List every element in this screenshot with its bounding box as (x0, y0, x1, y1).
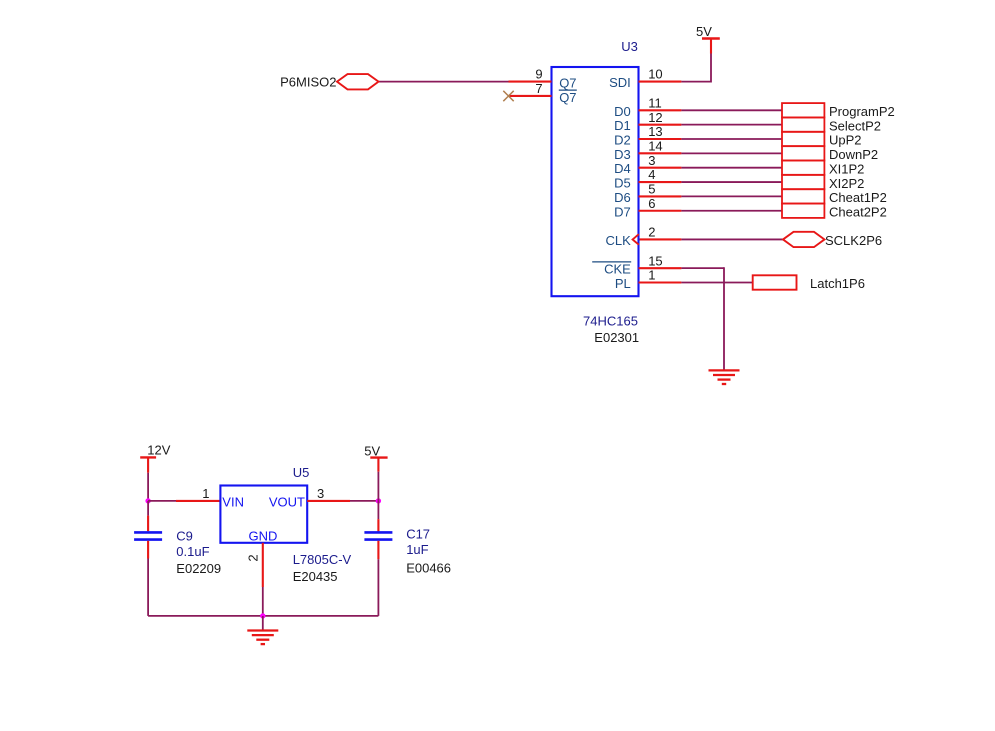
port cell for Cheat1P2 (782, 189, 824, 203)
port Latch1P6 rectangle (753, 275, 797, 289)
svg-text:15: 15 (648, 253, 662, 268)
pin 15 stub (CKE) (639, 267, 682, 269)
wire C9 to bottom rail (147, 559, 149, 616)
svg-text:E20435: E20435 (293, 569, 338, 584)
pin 1 stub (VIN) (176, 500, 220, 502)
svg-text:PL: PL (615, 276, 631, 291)
port cell for Cheat2P2 (782, 204, 824, 218)
wire SDI horizontal (681, 81, 711, 83)
svg-text:GND: GND (249, 528, 278, 543)
wire C17 to bottom rail (377, 559, 379, 616)
junction dot at VOUT/5V/C17 node (376, 498, 381, 503)
svg-text:DownP2: DownP2 (829, 147, 878, 162)
wire D5 to port (681, 181, 782, 183)
pin 13 stub (D2) (639, 138, 682, 140)
svg-text:VOUT: VOUT (269, 494, 305, 509)
pin 1 stub (PL) (639, 281, 682, 283)
svg-text:1: 1 (202, 486, 209, 501)
pin 9 stub (509, 81, 552, 83)
svg-text:XI1P2: XI1P2 (829, 161, 864, 176)
wire D4 to port (681, 167, 782, 169)
wire D3 to port (681, 152, 782, 154)
wire node down to C17 (377, 501, 379, 519)
port cell for UpP2 (782, 132, 824, 146)
svg-text:SDI: SDI (609, 75, 631, 90)
wire CKE down to ground (723, 267, 725, 370)
pin 12 stub (D1) (639, 124, 682, 126)
port cell for XI1P2 (782, 161, 824, 175)
pin 2 clock arrow (633, 234, 639, 245)
power symbol 12V bar (140, 456, 156, 458)
ground symbol (U3 section) (709, 370, 740, 384)
svg-text:U5: U5 (293, 465, 310, 480)
svg-text:1uF: 1uF (406, 542, 428, 557)
svg-text:5V: 5V (364, 443, 380, 458)
svg-text:6: 6 (648, 196, 655, 211)
bottom ground rail (148, 615, 378, 617)
capacitor C17 top lead (377, 519, 379, 531)
U3 CKE overline (592, 261, 631, 263)
svg-text:74HC165: 74HC165 (583, 314, 638, 329)
port cell for SelectP2 (782, 117, 824, 131)
svg-text:C17: C17 (406, 527, 430, 542)
svg-text:CKE: CKE (604, 262, 631, 277)
wire CKE horizontal (681, 267, 724, 269)
5V power pin stub (top) (710, 39, 712, 54)
svg-text:12V: 12V (147, 443, 170, 458)
wire P6MISO2 to pin 9 (379, 81, 509, 83)
svg-text:VIN: VIN (222, 494, 244, 509)
svg-text:D3: D3 (614, 147, 631, 162)
svg-text:E00466: E00466 (406, 560, 451, 575)
svg-text:L7805C-V: L7805C-V (293, 552, 352, 567)
5V power pin stub (bottom) (377, 458, 379, 472)
svg-text:SelectP2: SelectP2 (829, 118, 881, 133)
svg-text:4: 4 (648, 167, 655, 182)
pin 2 stub (CLK) (640, 238, 682, 240)
svg-text:14: 14 (648, 138, 662, 153)
pin 11 stub (D0) (639, 109, 682, 111)
junction dot at GND rail (260, 613, 265, 618)
svg-text:3: 3 (648, 153, 655, 168)
pin 2 stub (GND) (262, 543, 264, 587)
svg-text:Cheat2P2: Cheat2P2 (829, 204, 887, 219)
U3 /Q7 overline (559, 89, 577, 91)
pin 3 stub (VOUT) (307, 500, 350, 502)
svg-text:2: 2 (245, 554, 260, 561)
pin 7 stub (509, 95, 552, 97)
svg-text:0.1uF: 0.1uF (176, 544, 209, 559)
port P6MISO2 hexagon (337, 74, 379, 89)
power symbol 5V bar (top) (702, 37, 720, 39)
svg-text:D0: D0 (614, 104, 631, 119)
svg-text:Latch1P6: Latch1P6 (810, 276, 865, 291)
svg-text:11: 11 (648, 95, 662, 110)
svg-text:3: 3 (317, 486, 324, 501)
wire D0 to port (681, 109, 782, 111)
no-connect X on pin 7 (503, 91, 513, 101)
pin 5 stub (D6) (639, 195, 682, 197)
svg-text:D6: D6 (614, 190, 631, 205)
wire D6 to port (681, 195, 782, 197)
svg-text:ProgramP2: ProgramP2 (829, 104, 895, 119)
svg-text:D7: D7 (614, 204, 631, 219)
capacitor C17 plates (364, 532, 392, 539)
pin 4 stub (D5) (639, 181, 682, 183)
svg-text:XI2P2: XI2P2 (829, 176, 864, 191)
svg-text:10: 10 (648, 67, 662, 82)
svg-text:2: 2 (648, 225, 655, 240)
svg-text:SCLK2P6: SCLK2P6 (825, 233, 882, 248)
pin 6 stub (D7) (639, 210, 682, 212)
12V power pin stub (147, 457, 149, 472)
wire 5V down to node (377, 472, 379, 501)
port cell for XI2P2 (782, 175, 824, 189)
wire D2 to port (681, 138, 782, 140)
capacitor C17 bottom lead (377, 541, 379, 560)
wire PL to Latch1P6 (681, 282, 752, 284)
wire rail to ground symbol (262, 616, 264, 631)
svg-text:7: 7 (535, 81, 542, 96)
pin 10 stub (639, 81, 682, 83)
svg-text:Q7: Q7 (559, 75, 576, 90)
capacitor C9 top lead (147, 516, 149, 532)
svg-text:D1: D1 (614, 118, 631, 133)
svg-text:5: 5 (648, 182, 655, 197)
svg-text:12: 12 (648, 110, 662, 125)
capacitor C9 bottom lead (147, 541, 149, 559)
wire SDI vertical to 5V (710, 54, 712, 83)
svg-text:9: 9 (535, 67, 542, 82)
voltage regulator U5 body (220, 486, 307, 543)
wire 12V down to node (147, 473, 149, 501)
svg-text:13: 13 (648, 124, 662, 139)
IC U3 74HC165 shift register body (552, 67, 639, 296)
wire node down to C9 (147, 501, 149, 516)
svg-text:5V: 5V (696, 24, 712, 39)
capacitor C9 plates (134, 532, 162, 539)
svg-text:D2: D2 (614, 133, 631, 148)
svg-text:P6MISO2: P6MISO2 (280, 74, 336, 89)
svg-text:1: 1 (648, 268, 655, 283)
wire GND to bottom rail (262, 587, 264, 616)
wire node to VIN (148, 500, 176, 502)
svg-text:CLK: CLK (606, 233, 632, 248)
svg-text:UpP2: UpP2 (829, 133, 862, 148)
port cell for DownP2 (782, 146, 824, 160)
svg-text:E02301: E02301 (594, 330, 639, 345)
wire D7 to port (681, 210, 782, 212)
wire VOUT to node (350, 500, 378, 502)
pin 3 stub (D4) (639, 167, 682, 169)
ground symbol (power section) (247, 631, 278, 645)
svg-text:D4: D4 (614, 161, 631, 176)
svg-text:E02209: E02209 (176, 561, 221, 576)
port cell for ProgramP2 (782, 103, 824, 117)
svg-text:U3: U3 (621, 39, 638, 54)
svg-text:D5: D5 (614, 176, 631, 191)
power symbol 5V bar (bottom) (370, 456, 387, 458)
port SCLK2P6 hexagon (783, 232, 825, 247)
pin 14 stub (D3) (639, 152, 682, 154)
svg-text:Q7: Q7 (559, 90, 576, 105)
svg-text:C9: C9 (176, 529, 193, 544)
junction dot at 12V/C9/VIN node (145, 498, 150, 503)
svg-text:Cheat1P2: Cheat1P2 (829, 190, 887, 205)
wire CLK to SCLK2P6 (681, 238, 783, 240)
wire D1 to port (681, 124, 782, 126)
